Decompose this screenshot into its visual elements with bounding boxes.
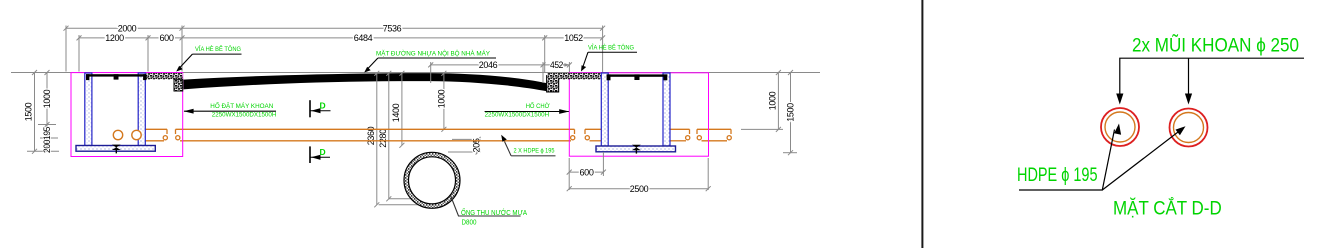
arrowhead into circle 2 — [1176, 126, 1186, 135]
dim 600 bottom — [567, 152, 711, 191]
section marker D top — [310, 100, 331, 117]
left sidewalk hatch strip — [147, 73, 183, 79]
svg-text:1052: 1052 — [564, 33, 583, 44]
svg-text:MẶT ĐƯỜNG NHỰA NỘI BỘ NHÀ MÁY: MẶT ĐƯỜNG NHỰA NỘI BỘ NHÀ MÁY — [376, 49, 491, 58]
pipe segment D — [670, 128, 690, 130]
svg-text:D800: D800 — [462, 218, 477, 227]
leader ong thu nuoc mua — [451, 196, 521, 217]
svg-text:VỈA HÈ BÊ TÔNG: VỈA HÈ BÊ TÔNG — [588, 42, 634, 51]
left pit left wall — [85, 73, 92, 146]
leader line under title — [1120, 58, 1304, 102]
pipe end circles in left pit — [113, 130, 122, 139]
left pit: magenta box — [71, 73, 183, 157]
right pit anchor mark — [632, 145, 641, 150]
left pit steel cover — [86, 74, 147, 76]
arrowhead to circle 2 — [1185, 94, 1192, 105]
left pit right wall — [138, 73, 145, 146]
center vertical dims 2360 2280 1400 1000 205 — [374, 71, 481, 208]
orange HDPE pipe segments — [145, 129, 731, 141]
svg-text:MẶT CẮT D-D: MẶT CẮT D-D — [1113, 196, 1222, 220]
dim row1: 2000 — [64, 26, 606, 73]
svg-text:1000: 1000 — [42, 90, 53, 109]
svg-text:6484: 6484 — [354, 33, 373, 44]
right vertical dims 1000 1500 — [741, 70, 797, 155]
svg-text:600: 600 — [580, 167, 594, 178]
bore circle 2 — [1170, 109, 1208, 147]
right pit bottom slab — [596, 146, 676, 152]
svg-text:D: D — [320, 147, 326, 157]
svg-text:VỈA HÈ BÊ TÔNG: VỈA HÈ BÊ TÔNG — [195, 44, 241, 53]
svg-text:452: 452 — [550, 60, 563, 71]
svg-text:1000: 1000 — [437, 90, 448, 109]
svg-text:2280: 2280 — [378, 129, 389, 148]
svg-text:2250WX1500DX1500H: 2250WX1500DX1500H — [212, 111, 277, 118]
svg-text:2500: 2500 — [630, 184, 649, 195]
svg-text:195: 195 — [42, 127, 53, 140]
svg-text:ỐNG THU NƯỚC MƯA: ỐNG THU NƯỚC MƯA — [461, 207, 527, 217]
svg-text:D: D — [320, 101, 326, 111]
left pit anchor mark — [112, 145, 121, 150]
arrowhead to circle 1 — [1116, 94, 1123, 105]
svg-text:1500: 1500 — [24, 103, 35, 122]
pipe segment B — [176, 128, 575, 130]
leader HDPE — [1019, 130, 1115, 191]
svg-text:1200: 1200 — [105, 33, 124, 44]
bore circle 1 — [1101, 108, 1139, 146]
left pit bottom slab — [76, 146, 155, 152]
svg-text:HDPE ϕ 195: HDPE ϕ 195 — [1017, 164, 1098, 186]
right pit left wall — [601, 73, 608, 146]
left sidewalk edge block — [174, 79, 183, 91]
dim 2046 — [428, 62, 572, 83]
right pit steel cover — [607, 74, 668, 76]
pipe segment E — [697, 128, 731, 130]
svg-text:2x MŨI KHOAN ϕ 250: 2x MŨI KHOAN ϕ 250 — [1132, 33, 1299, 57]
svg-text:1500: 1500 — [786, 103, 797, 122]
svg-text:200: 200 — [42, 140, 53, 153]
right sidewalk edge block — [547, 76, 559, 92]
svg-text:2250WX1500DX1500H: 2250WX1500DX1500H — [485, 111, 550, 118]
svg-text:1400: 1400 — [391, 104, 402, 123]
asphalt road surface — [184, 73, 549, 91]
arrowhead into circle 1 — [1114, 124, 1121, 135]
dim row2: 1200 600 6484 1052 — [77, 35, 606, 72]
svg-text:600: 600 — [160, 33, 174, 44]
svg-text:1000: 1000 — [767, 92, 778, 111]
ground line — [11, 72, 820, 74]
right pit right wall — [663, 73, 670, 146]
svg-text:2046: 2046 — [479, 60, 498, 71]
big rainwater pipe circle — [404, 152, 460, 208]
frame separator line — [921, 0, 923, 248]
pipe segment C — [585, 128, 601, 130]
right sidewalk hatch strip — [547, 73, 601, 79]
drop line to circle 2 — [1188, 58, 1190, 102]
pipe segment A — [145, 128, 167, 130]
svg-text:2 X HDPE ϕ 195: 2 X HDPE ϕ 195 — [514, 147, 555, 154]
svg-text:7536: 7536 — [383, 23, 402, 34]
left vertical dims: 1500 — [27, 70, 59, 154]
right pit: magenta box — [569, 73, 708, 156]
section marker D bottom — [310, 146, 330, 163]
